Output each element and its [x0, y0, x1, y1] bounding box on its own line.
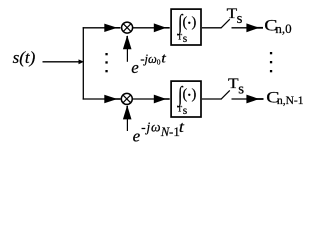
svg-text:n,N-1: n,N-1 — [277, 95, 304, 107]
wire top branch to mixer 1 — [83, 27, 106, 29]
sampler switch S2 — [221, 90, 230, 99]
integrator U2 integral sign — [176, 83, 184, 108]
wire bottom branch to mixer 2 — [83, 98, 106, 100]
wire integrator 1 output — [202, 27, 221, 29]
svg-text:s: s — [237, 11, 243, 27]
svg-text:T: T — [177, 33, 182, 42]
mixer M2 (multiplier) — [121, 93, 132, 104]
svg-text:s: s — [183, 105, 188, 117]
svg-text:s(t): s(t) — [13, 48, 36, 67]
sampler switch S1 — [221, 19, 230, 28]
svg-text:): ) — [192, 15, 197, 31]
svg-text:T: T — [177, 105, 182, 114]
svg-text:-jω: -jω — [141, 120, 161, 135]
left ellipsis dots — [105, 53, 107, 55]
svg-text:(: ( — [183, 87, 188, 103]
svg-text:(: ( — [183, 15, 188, 31]
svg-text:s: s — [183, 33, 188, 45]
integrator U2 box — [171, 81, 201, 117]
svg-text:e: e — [133, 127, 141, 146]
integrator U1 box — [171, 9, 201, 45]
mixer M1 (multiplier) — [122, 22, 133, 33]
svg-text:s: s — [238, 82, 244, 98]
svg-text:-jω: -jω — [140, 52, 157, 66]
svg-text:T: T — [228, 76, 239, 92]
wire integrator 2 output — [202, 98, 221, 100]
right ellipsis dots — [270, 52, 272, 54]
svg-text:n,0: n,0 — [275, 21, 291, 36]
node splitter bus — [82, 27, 84, 99]
carrier arrow into mixer 1 — [126, 47, 128, 62]
svg-text:0: 0 — [157, 58, 161, 67]
wire sampler 1 to output — [232, 27, 251, 29]
svg-text:t: t — [179, 119, 185, 136]
svg-text:): ) — [192, 87, 197, 103]
svg-text:e: e — [131, 58, 139, 77]
wire sampler 2 to output — [232, 98, 251, 100]
carrier arrow into mixer 2 — [126, 118, 128, 132]
wire mixer 1 to integrator 1 — [133, 27, 155, 29]
wire s(t) to splitter — [43, 61, 81, 63]
wire mixer 2 to integrator 2 — [133, 98, 155, 100]
integrator U1 integral sign — [176, 11, 184, 36]
